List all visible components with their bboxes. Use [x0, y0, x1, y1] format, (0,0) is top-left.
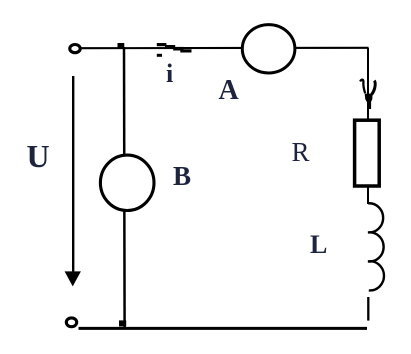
wire right vertical to resistor	[367, 48, 369, 121]
wire bottom horizontal	[79, 327, 368, 330]
node junction bottom	[119, 320, 126, 326]
label R	[292, 139, 310, 166]
wire left vertical branch	[123, 47, 126, 329]
label i	[166, 61, 173, 87]
label L	[310, 232, 327, 258]
arrow into resistor (hand-drawn down arrow)	[360, 80, 375, 109]
arrow i (current arrow, hand-drawn)	[157, 43, 192, 57]
ammeter A (meter circle U1)	[242, 25, 295, 73]
arrow U (voltage arrow)	[65, 76, 81, 286]
wire resistor to inductor	[367, 185, 369, 204]
resistor R	[355, 120, 380, 186]
node junction top	[118, 43, 125, 49]
label A	[219, 77, 239, 105]
label U	[27, 140, 50, 172]
inductor L (3-bump coil)	[368, 203, 384, 290]
label B	[173, 163, 191, 190]
wire top horizontal	[81, 47, 369, 50]
wire inductor stub to bottom	[367, 297, 369, 321]
terminal top-left	[70, 45, 80, 53]
voltmeter B (meter circle U2)	[100, 155, 154, 210]
terminal bottom-left	[66, 318, 76, 327]
